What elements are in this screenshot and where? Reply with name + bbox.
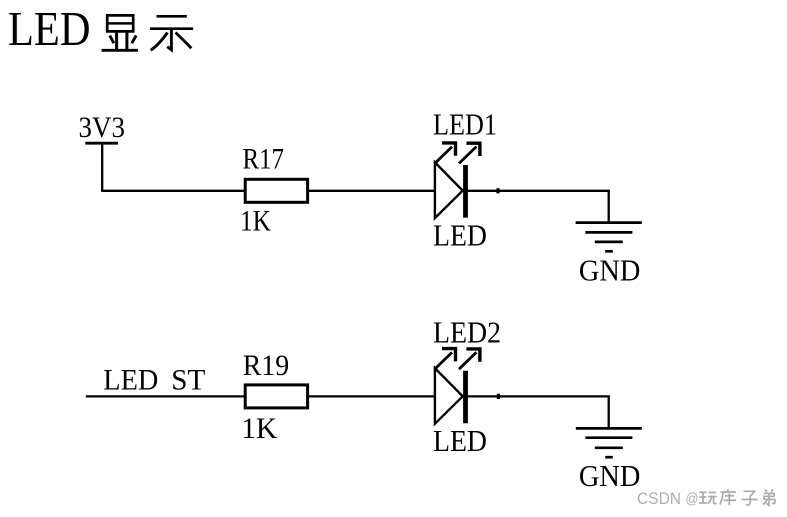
svg-text:R17: R17	[243, 144, 285, 176]
led LED1 arrow 2	[459, 143, 480, 163]
led LED2 arrow 1	[435, 349, 456, 370]
wire down to GND2	[608, 395, 610, 428]
wire down to GND1	[608, 190, 610, 223]
led LED1 arrow 1	[435, 143, 456, 164]
svg-text:LED: LED	[8, 3, 91, 56]
title glyph 示	[150, 16, 193, 50]
wire R17 to LED1	[308, 190, 436, 192]
junction nub on wire	[496, 188, 499, 193]
led LED1 cathode bar	[463, 165, 468, 218]
ground GND1	[576, 223, 642, 252]
svg-text:ST: ST	[171, 365, 205, 397]
led LED2 triangle	[435, 368, 463, 424]
wire LED1 to GND	[466, 190, 610, 192]
led LED2 arrow 2	[459, 349, 480, 369]
watermark glyph 子	[742, 491, 758, 505]
junction nub on wire 2	[497, 394, 500, 399]
svg-text:CSDN: CSDN	[637, 489, 681, 508]
led LED1 triangle	[435, 162, 463, 218]
title glyph 显	[102, 15, 138, 50]
watermark glyph 弟	[763, 489, 775, 505]
resistor R17	[245, 179, 307, 202]
power port 3V3	[85, 143, 118, 191]
net label LED_ST	[103, 365, 205, 397]
watermark glyph 玩	[699, 492, 717, 504]
svg-text:1K: 1K	[240, 206, 271, 238]
svg-text:LED: LED	[433, 424, 487, 458]
svg-text:3V3: 3V3	[79, 112, 126, 144]
resistor R19	[245, 385, 307, 408]
led LED2 cathode bar	[463, 371, 468, 424]
svg-text:GND: GND	[579, 459, 641, 493]
wire LED_ST to R19	[86, 395, 246, 397]
svg-text:1K: 1K	[241, 413, 277, 445]
wire R19 to LED2	[308, 395, 436, 397]
wire LED2 to GND	[466, 395, 610, 397]
svg-text:LED: LED	[103, 365, 158, 397]
wire 3V3 to R17	[101, 190, 246, 192]
watermark glyph 库	[720, 489, 736, 505]
svg-text:R19: R19	[243, 350, 290, 382]
svg-text:LED: LED	[433, 218, 487, 252]
svg-text:LED2: LED2	[433, 316, 501, 350]
svg-text:@: @	[686, 492, 699, 508]
ground GND2	[576, 428, 642, 457]
svg-text:LED1: LED1	[433, 108, 497, 142]
svg-text:GND: GND	[579, 254, 641, 288]
